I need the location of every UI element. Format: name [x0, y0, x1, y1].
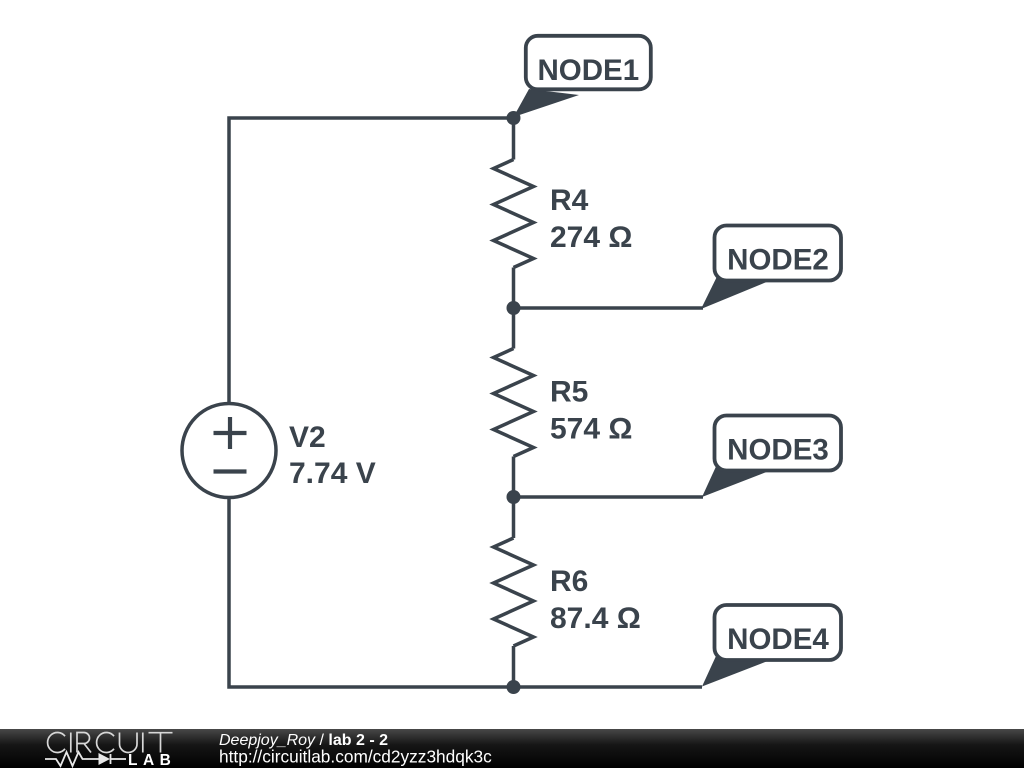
svg-text:V2: V2 [289, 421, 326, 454]
svg-text:274 Ω: 274 Ω [550, 221, 632, 254]
svg-text:574 Ω: 574 Ω [550, 413, 632, 446]
svg-text:NODE2: NODE2 [727, 244, 829, 277]
svg-text:87.4 Ω: 87.4 Ω [550, 602, 641, 635]
svg-text:7.74 V: 7.74 V [289, 457, 376, 490]
svg-text:R5: R5 [550, 376, 588, 409]
svg-text:LAB: LAB [128, 752, 176, 768]
svg-text:NODE3: NODE3 [727, 434, 829, 467]
svg-text:NODE1: NODE1 [537, 54, 639, 87]
svg-text:R4: R4 [550, 184, 589, 217]
svg-text:R6: R6 [550, 565, 588, 598]
svg-text:http://circuitlab.com/cd2yzz3h: http://circuitlab.com/cd2yzz3hdqk3c [219, 747, 492, 767]
svg-text:NODE4: NODE4 [727, 623, 829, 656]
